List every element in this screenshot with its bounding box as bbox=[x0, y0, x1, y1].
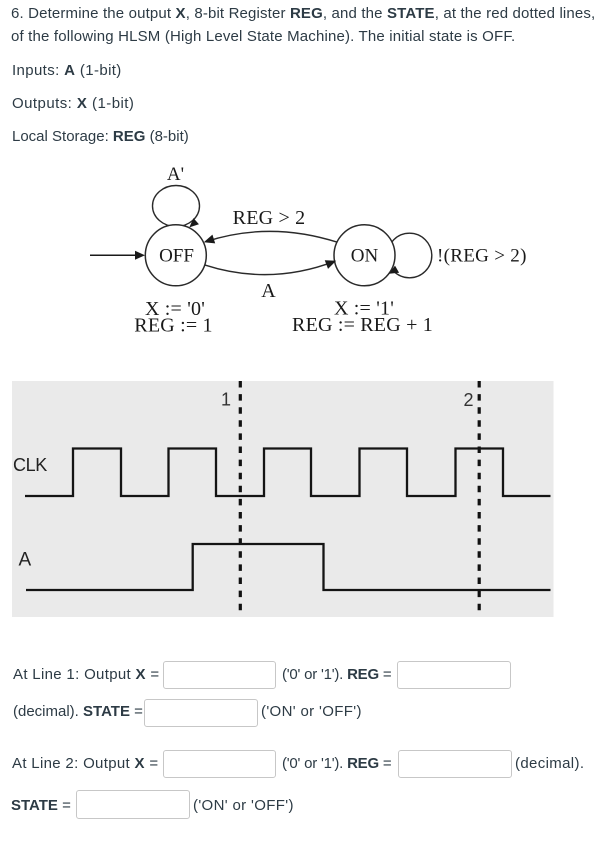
label A' bbox=[167, 164, 184, 185]
label 1 bbox=[221, 390, 231, 410]
self-loop OFF arrowhead bbox=[187, 218, 199, 230]
initial arrow into OFF bbox=[90, 251, 145, 260]
form row 4 bbox=[11, 792, 71, 820]
dotted line 2 bbox=[478, 381, 481, 616]
dotted line 1 bbox=[239, 381, 242, 616]
form row 3 bbox=[12, 750, 158, 777]
label !(REG > 2) bbox=[437, 246, 527, 267]
ON actions bbox=[292, 298, 433, 337]
label CLK bbox=[13, 455, 47, 475]
svg-text:!(REG > 2): !(REG > 2) bbox=[437, 246, 527, 267]
label A bbox=[19, 549, 32, 570]
self-loop on ON bbox=[387, 233, 432, 278]
outputs line bbox=[12, 93, 134, 115]
svg-text:OFF: OFF bbox=[159, 246, 194, 267]
OFF actions bbox=[134, 298, 212, 336]
transition ON to OFF (REG > 2) bbox=[202, 231, 336, 246]
svg-text:2: 2 bbox=[463, 390, 473, 410]
local storage line bbox=[12, 126, 189, 148]
self-loop ON arrowhead bbox=[387, 266, 399, 278]
svg-text:A: A bbox=[261, 280, 276, 302]
transition OFF to ON (A) bbox=[205, 257, 338, 275]
timing diagram bbox=[0, 375, 605, 625]
inputs line bbox=[12, 60, 122, 82]
svg-text:REG := 1: REG := 1 bbox=[134, 314, 212, 336]
svg-text:REG > 2: REG > 2 bbox=[233, 207, 306, 229]
self-loop on OFF bbox=[153, 186, 200, 227]
timing background bbox=[12, 381, 554, 617]
CLK waveform bbox=[25, 449, 551, 497]
state ON bbox=[334, 225, 395, 286]
label 2 bbox=[463, 390, 473, 410]
question paragraph line 1 bbox=[11, 3, 595, 25]
question paragraph line 2 bbox=[11, 26, 515, 48]
svg-text:REG := REG + 1: REG := REG + 1 bbox=[292, 314, 433, 336]
state diagram bbox=[0, 0, 605, 360]
state OFF bbox=[145, 225, 206, 286]
label REG > 2 bbox=[233, 207, 306, 229]
svg-text:A: A bbox=[19, 549, 32, 570]
form row 1 bbox=[13, 661, 159, 688]
A waveform bbox=[26, 544, 551, 590]
svg-text:1: 1 bbox=[221, 390, 231, 410]
svg-text:ON: ON bbox=[351, 246, 379, 267]
svg-text:A': A' bbox=[167, 164, 184, 185]
label A bbox=[261, 280, 276, 302]
form row 2 bbox=[13, 698, 143, 725]
svg-text:CLK: CLK bbox=[13, 455, 47, 475]
